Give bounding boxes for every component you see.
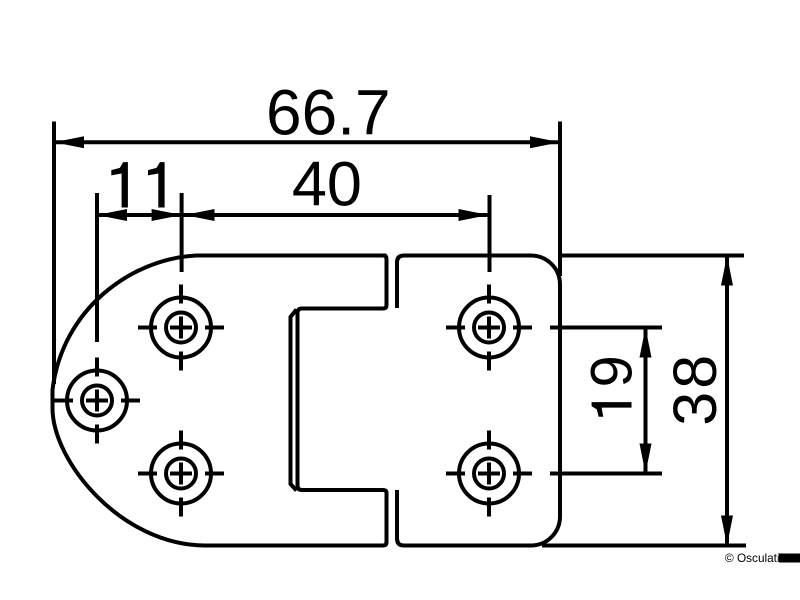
extension line 66.7 right (558, 122, 562, 277)
arrow 11 left (97, 209, 127, 221)
svg-text:38: 38 (661, 352, 729, 426)
extension line 11 left (95, 193, 99, 342)
dimension line 19 (644, 328, 648, 474)
arrow 38 bottom (721, 516, 733, 546)
hole bottom-right (446, 431, 532, 517)
hinge right leaf outline (397, 256, 560, 546)
dimension line 38 (725, 256, 729, 546)
svg-text:66.7: 66.7 (266, 77, 391, 149)
hinge left leaf recess inner bend line (291, 310, 297, 491)
dimension line 66.7 (54, 140, 560, 144)
hole bottom-left (138, 431, 224, 517)
extension line 40 right (488, 195, 492, 272)
extension line 11/40 shared (180, 193, 184, 272)
extension line 38 bottom (542, 544, 746, 548)
svg-text:40: 40 (292, 150, 362, 220)
arrow 11 right (152, 209, 182, 221)
hole top-left (138, 285, 224, 371)
arrow 19 bottom (640, 444, 652, 474)
arrow 66.7 left (54, 136, 84, 148)
svg-text:9: 9 (580, 355, 645, 387)
arrow 19 top (640, 328, 652, 358)
hinge left leaf outline (53, 256, 387, 546)
extension line 19 bottom (550, 472, 662, 476)
extension line 66.7 left (52, 122, 56, 385)
extension line 38 top (560, 254, 744, 258)
arrow 40 left (185, 209, 215, 221)
extension line 19 top (550, 326, 662, 330)
hole far-left (54, 358, 140, 444)
svg-text:© Osculati: © Osculati (725, 551, 780, 565)
dimension line 11-40 (97, 213, 489, 217)
dimension text 11 (111, 162, 164, 207)
arrow 66.7 right (530, 136, 560, 148)
dimension text 19 (rotated) (592, 402, 632, 417)
arrow 40 right (459, 209, 489, 221)
hole top-right (446, 285, 532, 371)
censor bar (779, 554, 800, 563)
arrow 38 top (721, 256, 733, 286)
